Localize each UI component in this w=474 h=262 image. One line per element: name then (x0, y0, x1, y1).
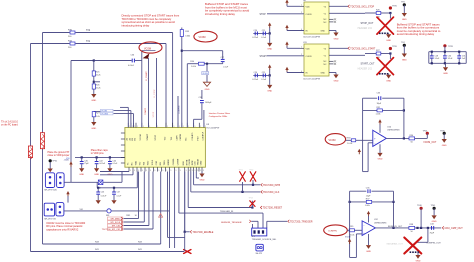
svg-text:TDC7200_SIG1_STOP: TDC7200_SIG1_STOP (350, 6, 374, 8)
svg-text:TP21: TP21 (239, 170, 243, 172)
svg-text:GND: GND (402, 59, 407, 61)
svg-text:E_STOP: E_STOP (154, 89, 156, 98)
svg-text:1: 1 (188, 126, 189, 128)
svg-text:9: 9 (138, 170, 139, 172)
svg-text:COMPO: COMPO (192, 132, 194, 140)
svg-text:C31: C31 (462, 55, 465, 57)
svg-text:9: 9 (142, 170, 143, 172)
svg-text:HEADER 1X2: HEADER 1X2 (358, 68, 373, 71)
svg-text:0.01uF: 0.01uF (99, 163, 106, 165)
svg-text:STOP: STOP (260, 14, 267, 16)
svg-text:1: 1 (134, 126, 135, 128)
svg-text:TDC7200_TRIGGER: TDC7200_TRIGGER (290, 220, 313, 223)
svg-text:VIO: VIO (139, 161, 141, 165)
svg-text:3.36k: 3.36k (185, 35, 190, 37)
svg-text:TP22: TP22 (249, 170, 253, 172)
svg-text:EN: EN (160, 162, 162, 165)
svg-text:0.1uF: 0.1uF (113, 163, 119, 165)
svg-text:TRIGGER_IN: TRIGGER_IN (220, 211, 234, 213)
svg-text:C25: C25 (262, 30, 265, 32)
svg-text:to VDD pins: to VDD pins (91, 152, 105, 155)
svg-text:TDC7200_ENABLE: TDC7200_ENABLE (192, 231, 213, 234)
svg-text:1: 1 (132, 126, 133, 128)
svg-text:0.1uF: 0.1uF (261, 37, 267, 39)
svg-text:TDC1000PW: TDC1000PW (206, 127, 220, 129)
svg-text:9: 9 (154, 170, 155, 172)
svg-text:Configured for 1MHz: Configured for 1MHz (209, 116, 227, 118)
svg-text:TDC7200_SIG1_START: TDC7200_SIG1_START (350, 47, 376, 50)
svg-text:GND: GND (402, 19, 407, 21)
svg-text:CLKIN: CLKIN (189, 159, 191, 166)
svg-text:1: 1 (174, 126, 175, 128)
svg-text:TRIG: TRIG (164, 160, 166, 165)
svg-text:STOP_OUT: STOP_OUT (361, 22, 374, 25)
svg-text:CLK: CLK (195, 161, 197, 166)
svg-text:GND: GND (91, 100, 96, 102)
svg-text:9: 9 (189, 170, 190, 172)
svg-text:0.1uF: 0.1uF (223, 66, 229, 68)
svg-text:1: 1 (301, 5, 302, 7)
svg-text:SDO: SDO (147, 160, 149, 165)
svg-text:9: 9 (162, 170, 163, 172)
svg-text:GND: GND (378, 159, 383, 161)
svg-text:1: 1 (179, 126, 180, 128)
svg-text:9: 9 (166, 170, 167, 172)
svg-text:HEADER 1X2: HEADER 1X2 (358, 27, 373, 30)
svg-text:C46: C46 (101, 192, 104, 194)
svg-text:TX1: TX1 (86, 41, 91, 43)
svg-text:CLKIN: CLKIN (306, 14, 312, 16)
svg-text:2: 2 (301, 12, 302, 14)
svg-text:0.01uF: 0.01uF (128, 65, 135, 67)
svg-text:introducing timing delay: introducing timing delay (205, 12, 235, 16)
svg-text:1: 1 (167, 126, 168, 128)
svg-text:GND: GND (200, 179, 205, 181)
svg-text:VCOM: VCOM (329, 140, 336, 142)
svg-text:3.3uF: 3.3uF (448, 58, 454, 60)
svg-text:9: 9 (134, 170, 135, 172)
svg-text:1.00k: 1.00k (191, 66, 196, 68)
svg-text:STOP: STOP (153, 111, 155, 117)
svg-text:VDD: VDD (306, 6, 311, 8)
svg-text:TRIGGER_SOURCE_SEL: TRIGGER_SOURCE_SEL (252, 239, 277, 241)
svg-text:3.3uF: 3.3uF (435, 58, 441, 60)
svg-text:GND: GND (386, 81, 391, 83)
svg-text:GND: GND (386, 40, 391, 42)
svg-text:VDD: VDD (135, 160, 137, 165)
svg-text:SH-JP3 VDD: SH-JP3 VDD (44, 190, 57, 192)
svg-text:GND: GND (442, 145, 447, 147)
svg-text:1: 1 (200, 126, 201, 128)
svg-text:COMPIN_OUT: COMPIN_OUT (426, 243, 441, 245)
svg-text:CHSEL: CHSEL (173, 158, 175, 166)
svg-text:C26: C26 (254, 72, 257, 74)
svg-text:ERRB: ERRB (168, 159, 170, 165)
svg-text:0.22uF: 0.22uF (252, 79, 259, 81)
svg-text:1: 1 (137, 126, 138, 128)
svg-text:close to VDD jumper: close to VDD jumper (48, 154, 70, 157)
svg-text:TDC7200_CLK: TDC7200_CLK (263, 191, 280, 194)
svg-text:GND: GND (205, 89, 210, 91)
svg-text:BUFF_IN_OUT: BUFF_IN_OUT (388, 226, 403, 228)
svg-text:TDC7200_SPI_CS1: TDC7200_SPI_CS1 (102, 229, 121, 231)
svg-text:TP23: TP23 (249, 197, 253, 199)
svg-text:C28: C28 (435, 55, 438, 57)
svg-text:9: 9 (130, 170, 131, 172)
svg-text:0.22uF: 0.22uF (252, 37, 259, 39)
svg-text:SH-JP4 VIO: SH-JP4 VIO (44, 218, 56, 220)
svg-text:TDC7200_RESET: TDC7200_RESET (263, 207, 283, 210)
svg-text:INTB: INTB (192, 160, 194, 165)
svg-text:GND: GND (79, 174, 84, 176)
svg-text:GND: GND (321, 31, 326, 33)
svg-text:9: 9 (203, 170, 204, 172)
svg-text:STOP: STOP (155, 134, 157, 140)
svg-text:1: 1 (183, 126, 184, 128)
svg-text:9: 9 (197, 170, 198, 172)
svg-text:GND: GND (91, 128, 96, 130)
svg-text:VCOM3: VCOM3 (101, 113, 108, 115)
svg-text:1: 1 (301, 47, 302, 49)
svg-text:0.1uF: 0.1uF (261, 79, 267, 81)
svg-text:SDI: SDI (143, 161, 145, 165)
svg-text:capacitances onto RX/ARX2: capacitances onto RX/ARX2 (46, 227, 79, 231)
svg-text:VCOM: VCOM (199, 37, 206, 39)
svg-text:VCOM: VCOM (345, 237, 351, 239)
svg-text:VDD3V: VDD3V (202, 73, 209, 75)
svg-text:9: 9 (146, 170, 147, 172)
svg-text:E_START: E_START (145, 71, 148, 81)
svg-text:9: 9 (192, 170, 193, 172)
svg-text:1: 1 (149, 126, 150, 128)
svg-text:FILT: FILT (198, 136, 200, 141)
svg-text:JP6: JP6 (252, 236, 255, 238)
svg-text:CSB: CSB (156, 160, 158, 165)
svg-text:GND: GND (267, 49, 272, 51)
svg-text:15pF: 15pF (366, 196, 371, 198)
svg-text:START: START (144, 107, 147, 114)
svg-text:9: 9 (186, 170, 187, 172)
svg-text:41.2k: 41.2k (96, 75, 101, 77)
svg-text:MAGATAN_OUT: MAGATAN_OUT (387, 242, 404, 245)
svg-text:NC: NC (186, 137, 188, 141)
svg-text:GND: GND (94, 174, 99, 176)
svg-text:9: 9 (158, 170, 159, 172)
svg-text:10.0k: 10.0k (347, 143, 352, 145)
svg-text:1: 1 (205, 126, 206, 128)
svg-text:9: 9 (150, 170, 151, 172)
svg-text:1.0k: 1.0k (96, 116, 100, 118)
svg-text:C47: C47 (117, 192, 120, 194)
svg-text:C30: C30 (448, 55, 451, 57)
svg-text:TDC7200_INTB: TDC7200_INTB (263, 184, 280, 187)
svg-text:TX ch 2,4,5,8,10: TX ch 2,4,5,8,10 (1, 122, 19, 124)
svg-text:9: 9 (200, 170, 201, 172)
svg-text:GND: GND (334, 38, 339, 40)
svg-text:SCLK: SCLK (152, 159, 154, 165)
svg-text:1.00k: 1.00k (376, 114, 381, 116)
svg-text:GND: GND (321, 73, 326, 75)
svg-text:4: 4 (301, 29, 302, 31)
svg-text:avoid introducing timing delay: avoid introducing timing delay (397, 32, 435, 36)
svg-text:on the PC board: on the PC board (1, 124, 18, 127)
svg-text:VCOM_OUT: VCOM_OUT (423, 142, 437, 144)
svg-text:4: 4 (301, 71, 302, 73)
svg-text:1: 1 (157, 126, 158, 128)
svg-text:C26: C26 (254, 30, 257, 32)
svg-text:START: START (260, 55, 268, 58)
svg-text:CMPI: CMPI (176, 135, 178, 141)
svg-text:VIO: VIO (80, 209, 84, 211)
svg-text:COMPIN: COMPIN (179, 105, 181, 114)
svg-text:75pF: 75pF (430, 233, 435, 235)
svg-text:2: 2 (301, 54, 302, 56)
svg-text:GND: GND (443, 73, 448, 75)
svg-text:41.2k: 41.2k (96, 88, 101, 90)
svg-text:COMPLF: COMPLF (202, 131, 204, 140)
svg-text:LMH6559MG: LMH6559MG (387, 130, 400, 132)
svg-text:VDD: VDD (306, 48, 311, 50)
svg-text:LMH6559MG: LMH6559MG (374, 222, 387, 224)
svg-text:introducing timing delay: introducing timing delay (122, 24, 150, 28)
svg-text:SH-JP5: SH-JP5 (256, 253, 263, 255)
svg-text:9: 9 (180, 170, 181, 172)
svg-text:CDCLVC1102PW: CDCLVC1102PW (303, 78, 321, 80)
svg-text:CMPIN: CMPIN (180, 133, 182, 140)
svg-text:TX2: TX2 (86, 30, 91, 32)
svg-text:1: 1 (195, 126, 196, 128)
svg-text:VCOM: VCOM (140, 134, 142, 141)
svg-text:Interface Passive Filters: Interface Passive Filters (209, 112, 230, 115)
svg-text:CHSW: CHSW (177, 159, 179, 165)
svg-text:CLKIN: CLKIN (306, 56, 312, 58)
svg-text:9: 9 (195, 170, 196, 172)
svg-text:18pF: 18pF (377, 103, 382, 105)
svg-text:VCOM: VCOM (144, 49, 151, 51)
svg-text:SENSOR_TRIGGER: SENSOR_TRIGGER (221, 222, 242, 224)
svg-text:9: 9 (170, 170, 171, 172)
svg-text:GND: GND (267, 91, 272, 93)
svg-text:START: START (146, 133, 149, 140)
svg-text:C25: C25 (262, 72, 265, 74)
svg-text:1.00k: 1.00k (365, 205, 370, 207)
svg-text:GND: GND (334, 80, 339, 82)
svg-text:CDCLVC1102PW: CDCLVC1102PW (303, 36, 321, 38)
svg-text:0.01uF: 0.01uF (101, 195, 107, 197)
svg-text:TRIGB: TRIGB (197, 158, 199, 165)
svg-text:1000pF: 1000pF (205, 102, 212, 104)
svg-text:GND: GND (366, 251, 371, 253)
svg-text:GND: GND (200, 160, 202, 165)
svg-text:CRU_CMP_OUT: CRU_CMP_OUT (445, 227, 464, 230)
svg-text:9: 9 (176, 170, 177, 172)
svg-text:1: 1 (129, 126, 130, 128)
svg-text:1: 1 (143, 126, 144, 128)
svg-text:COMPIN: COMPIN (328, 231, 337, 233)
svg-text:START_OUT: START_OUT (361, 63, 376, 66)
